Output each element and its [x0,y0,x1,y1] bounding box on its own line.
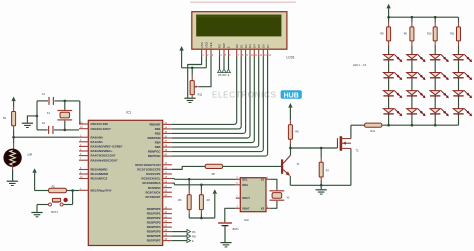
svg-text:RC3/SCK/SCL: RC3/SCK/SCL [142,177,161,181]
svg-text:SCL: SCL [242,177,248,181]
svg-text:D1: D1 [239,44,243,48]
svg-text:RA0/AN0: RA0/AN0 [91,135,104,139]
svg-text:RC5/SDO: RC5/SDO [148,186,161,190]
svg-text:VBAT: VBAT [242,206,250,210]
svg-text:RB0/INT: RB0/INT [149,123,160,127]
svg-text:RB2: RB2 [155,132,161,136]
svg-text:D5: D5 [257,44,261,48]
svg-text:OSC2/CLKOUT: OSC2/CLKOUT [91,127,112,131]
svg-text:R12: R12 [198,93,203,96]
svg-text:D4: D4 [253,44,257,48]
svg-text:RE2/AN7/CS: RE2/AN7/CS [91,177,108,181]
svg-text:RA4/T0CKI/C1OUT: RA4/T0CKI/C1OUT [91,154,116,158]
svg-text:RD2/PSP2: RD2/PSP2 [147,216,161,220]
svg-text:RB1: RB1 [155,127,161,131]
svg-text:R12: R12 [370,130,375,133]
svg-text:RB3/PGM: RB3/PGM [148,136,162,140]
svg-text:RC1/T1OSI/CCP2: RC1/T1OSI/CCP2 [137,167,160,171]
svg-text:D2: D2 [244,44,248,48]
svg-text:RS: RS [192,231,196,234]
svg-text:R11: R11 [450,33,455,36]
svg-text:RA2/AN2/VREF-/CVREF: RA2/AN2/VREF-/CVREF [91,145,123,149]
svg-text:ELECTRONICS: ELECTRONICS [212,90,277,99]
svg-text:RB7/PGD: RB7/PGD [148,154,161,158]
svg-text:RA5/AN4/SS/C2OUT: RA5/AN4/SS/C2OUT [91,158,118,162]
svg-text:X2: X2 [261,206,265,210]
svg-text:LCD1: LCD1 [287,56,295,60]
svg-text:VSS: VSS [200,42,204,48]
svg-text:RE1/AN6/WR: RE1/AN6/WR [91,172,109,176]
svg-text:RD0/PSP0: RD0/PSP0 [147,207,161,211]
svg-text:X1: X1 [261,177,265,181]
svg-text:SDA: SDA [242,183,248,187]
svg-text:RD3/PSP3: RD3/PSP3 [147,221,161,225]
svg-text:IC1: IC1 [126,111,131,115]
svg-text:RA3/AN3/VREF+: RA3/AN3/VREF+ [91,149,114,153]
svg-text:VDD: VDD [205,41,209,48]
svg-text:LDR: LDR [27,153,32,156]
svg-text:RS: RS [218,74,222,77]
svg-text:LED 1 - 16: LED 1 - 16 [353,63,367,67]
svg-text:RD4/PSP4: RD4/PSP4 [147,225,161,229]
svg-text:D7: D7 [266,44,270,48]
svg-text:RD5/PSP5: RD5/PSP5 [147,230,161,234]
svg-text:RB5: RB5 [155,145,161,149]
svg-text:RC4/SDI/SDA: RC4/SDI/SDA [142,181,160,185]
svg-text:RD7/PSP7: RD7/PSP7 [147,239,161,243]
svg-text:R10: R10 [427,33,432,36]
svg-text:RB6/PGC: RB6/PGC [148,150,161,154]
svg-text:BUT1: BUT1 [51,211,58,214]
svg-text:VEE: VEE [209,42,213,48]
svg-text:RC6/TX/CK: RC6/TX/CK [145,190,161,194]
svg-text:RC7/RX/DT: RC7/RX/DT [145,195,160,199]
svg-text:MCLR/Vpp/THV: MCLR/Vpp/THV [91,188,112,192]
svg-text:RC2/CCP1: RC2/CCP1 [146,172,160,176]
svg-text:RC0/T1OSO/T1CKI: RC0/T1OSO/T1CKI [135,163,160,167]
svg-text:RE0/AN5/RD: RE0/AN5/RD [91,168,108,172]
svg-text:RA1/AN1: RA1/AN1 [91,140,104,144]
svg-text:BAT1: BAT1 [233,228,240,231]
svg-text:IC2: IC2 [244,218,249,222]
svg-text:RD1/PSP1: RD1/PSP1 [147,212,161,216]
svg-text:RW: RW [222,43,226,48]
svg-text:RB4: RB4 [155,141,161,145]
svg-text:HUB: HUB [284,92,299,99]
svg-text:OSC1/CLKIN: OSC1/CLKIN [91,122,108,126]
svg-text:RS: RS [218,44,222,48]
svg-text:E: E [227,46,231,48]
svg-text:RD6/PSP6: RD6/PSP6 [147,234,161,238]
svg-text:SOUT: SOUT [242,196,250,200]
svg-text:D0: D0 [235,44,239,48]
